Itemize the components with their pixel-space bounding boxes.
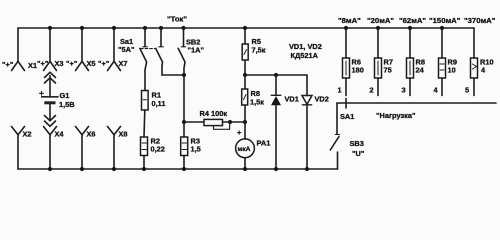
svg-text:X7: X7 [119, 59, 128, 68]
battery G1 [40, 91, 75, 109]
svg-text:"+": "+" [66, 59, 78, 68]
node R3 bottom [182, 167, 186, 171]
switch SA1 pole A [118, 26, 147, 70]
plug arrow into X4 [45, 116, 56, 127]
svg-text:2: 2 [370, 86, 374, 95]
resistor R7 [370, 28, 393, 96]
svg-text:X1: X1 [28, 61, 37, 70]
resistor R10 [465, 28, 494, 96]
svg-text:0,11: 0,11 [152, 99, 166, 108]
svg-text:"1A": "1A" [188, 46, 205, 55]
wire pole B to SB2 node [162, 74, 184, 76]
wire SA1 to SB3 [336, 103, 338, 134]
node tap R8 [408, 26, 412, 30]
wire R5 to node [244, 60, 246, 75]
resistor R3 [181, 137, 201, 156]
svg-text:75: 75 [384, 66, 392, 75]
resistor R5 [242, 37, 266, 60]
SA1 wiper contact [345, 99, 347, 109]
node R2 bottom [142, 167, 146, 171]
svg-text:"Нагрузка": "Нагрузка" [376, 111, 416, 120]
wire R1 to R2 [143, 110, 146, 137]
node on top rail at X5 [80, 26, 84, 30]
button SB3 [330, 135, 365, 170]
wire R4 to meter column [223, 121, 246, 123]
svg-text:VD1, VD2: VD1, VD2 [289, 42, 322, 51]
svg-text:"+": "+" [37, 59, 49, 68]
gang link SA1 [141, 48, 157, 50]
svg-text:3: 3 [402, 86, 406, 95]
svg-text:VD1: VD1 [285, 95, 299, 104]
svg-text:G1: G1 [60, 91, 70, 100]
svg-text:180: 180 [352, 66, 364, 75]
button SB2 [178, 26, 204, 75]
wire R2 to bottom rail [143, 156, 145, 170]
svg-text:X3: X3 [55, 59, 64, 68]
svg-text:PA1: PA1 [257, 139, 271, 148]
jack X7 [98, 28, 128, 71]
node diode branch [243, 73, 247, 77]
wire diode bus [245, 74, 307, 76]
svg-text:1,5: 1,5 [191, 145, 201, 154]
svg-text:1,5B: 1,5B [59, 100, 75, 109]
trimmer R4 [200, 109, 230, 129]
svg-text:"370мА": "370мА" [464, 16, 496, 25]
jack X1 [2, 28, 37, 71]
svg-text:SA1: SA1 [340, 112, 354, 121]
svg-text:"62мА": "62мА" [399, 16, 426, 25]
svg-text:X5: X5 [87, 59, 96, 68]
node tap R6 [344, 26, 348, 30]
svg-text:7,5к: 7,5к [252, 46, 266, 55]
node R4 branch [182, 120, 186, 124]
wire R5 node to R8 [244, 75, 246, 89]
resistor R2 [141, 137, 165, 156]
resistor R9 [434, 28, 457, 96]
svg-text:1,5к: 1,5к [250, 98, 264, 107]
node tap R7 [376, 26, 380, 30]
node on top rail at R5 [243, 26, 247, 30]
resistor R6 [338, 28, 364, 96]
svg-text:1: 1 [338, 86, 342, 95]
svg-text:X2: X2 [23, 130, 32, 139]
svg-text:"+": "+" [98, 59, 110, 68]
resistor R8 load [402, 28, 425, 96]
diode VD2 [302, 75, 329, 169]
jack X6 [76, 127, 96, 170]
wire battery to plug [49, 104, 51, 119]
node R4 wiper [228, 120, 232, 124]
jack X2 [12, 127, 32, 170]
node on bottom rail at X4 [48, 167, 52, 171]
svg-text:"8мА": "8мА" [338, 16, 361, 25]
resistor R8 shunt [242, 89, 265, 107]
node on top rail at X3 [48, 26, 52, 30]
wire to meter [244, 122, 246, 139]
svg-text:"Ток": "Ток" [167, 15, 187, 24]
node SB2 output [182, 73, 186, 77]
jack X4 [44, 127, 65, 170]
wire R8 to meter node [244, 105, 246, 122]
diode VD1 [271, 75, 299, 169]
switch SA1 wiper bar [337, 102, 496, 104]
resistor R1 [142, 91, 166, 111]
wire SB2 node down [183, 75, 185, 137]
wire pole A to R1 [144, 70, 146, 91]
svg-text:"+": "+" [2, 60, 14, 69]
svg-text:"150мА": "150мА" [429, 16, 461, 25]
wire rail to R5 [244, 28, 246, 44]
svg-text:"U": "U" [352, 149, 365, 158]
svg-text:0,22: 0,22 [151, 145, 165, 154]
node meter bottom [243, 167, 247, 171]
svg-text:"5A": "5A" [118, 45, 135, 54]
svg-text:мкА: мкА [238, 146, 251, 153]
switch SA1 pole B [156, 26, 164, 75]
jack X8 [108, 127, 128, 170]
svg-text:X6: X6 [87, 130, 96, 139]
meter PA1 [236, 139, 271, 158]
wire R3 to bottom rail [183, 156, 185, 170]
node on top rail at X7 [112, 26, 116, 30]
svg-text:SB3: SB3 [350, 139, 364, 148]
node on bottom rail at X8 [112, 167, 116, 171]
svg-text:КД521А: КД521А [291, 51, 319, 60]
svg-text:"20мА": "20мА" [367, 16, 394, 25]
svg-text:X8: X8 [119, 130, 128, 139]
jack X3 [37, 28, 64, 71]
svg-text:R4 100к: R4 100к [200, 109, 228, 118]
node on bottom rail at X6 [80, 167, 84, 171]
svg-text:24: 24 [416, 66, 425, 75]
node VD2 bottom [305, 167, 309, 171]
wire R4 branch [184, 121, 204, 123]
plug arrow into X3 [45, 72, 56, 97]
node tap R9 [440, 26, 444, 30]
node meter column [243, 120, 247, 124]
svg-text:+: + [237, 128, 242, 137]
svg-text:VD2: VD2 [315, 95, 329, 104]
svg-text:5: 5 [465, 86, 469, 95]
jack X5 [66, 28, 96, 71]
node VD1 top [274, 73, 278, 77]
wire bottom rail [18, 168, 338, 170]
wire top rail [18, 27, 474, 29]
svg-text:10: 10 [448, 66, 456, 75]
svg-text:X4: X4 [55, 130, 65, 139]
node VD1 bottom [274, 167, 278, 171]
wire meter to bottom rail [244, 158, 246, 169]
